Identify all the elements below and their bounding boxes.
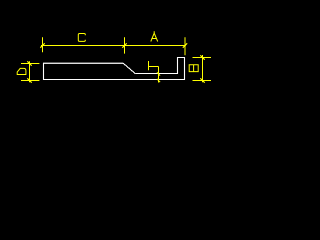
extension line D top: [21, 63, 39, 65]
extension line middle: [124, 37, 126, 53]
tick right crossing: [183, 43, 187, 47]
tick B bottom crossing: [200, 78, 204, 82]
tick T top crossing: [157, 72, 160, 75]
label B (rotated 90): [189, 65, 198, 72]
dimension line T (vertical, thickness): [158, 67, 160, 83]
extension line B top: [193, 57, 212, 59]
label T (rotated 90): [148, 61, 150, 70]
tick T bottom crossing: [157, 79, 160, 82]
label D (rotated 90): [17, 68, 26, 74]
tick B top crossing: [200, 55, 204, 59]
part outline: top edge of upper flange: [43, 62, 123, 64]
part outline: web, hook and base: [44, 58, 185, 80]
label A: [151, 31, 158, 41]
part outline: bend slope: [123, 63, 135, 73]
extension line D bottom: [21, 80, 39, 82]
extension line left: [42, 37, 44, 52]
tick left crossing: [40, 43, 44, 47]
dimension line D (vertical): [29, 61, 31, 82]
extension line B bottom: [193, 80, 212, 82]
label C: [78, 34, 85, 42]
dimension line C+A (horizontal): [41, 45, 186, 47]
leader T: [149, 66, 159, 68]
dimension line B (vertical): [202, 55, 204, 82]
tick D top crossing: [27, 61, 31, 65]
tick middle crossing: [122, 43, 126, 47]
tick D bottom crossing: [27, 78, 31, 82]
extension line right: [184, 37, 186, 55]
